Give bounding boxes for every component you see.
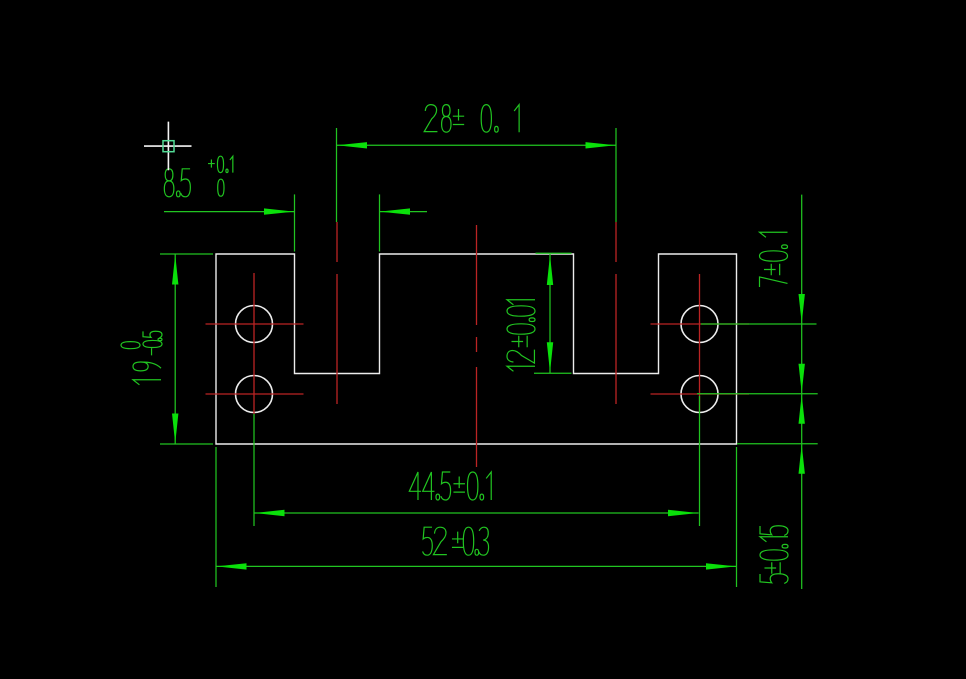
dim 44.5 arrow right xyxy=(668,510,698,516)
dim 52 arrow right xyxy=(706,563,736,569)
dim 19 text "19 0/-0.5" (rotated) xyxy=(121,331,162,385)
dim 12 text "12±0.01" (rotated) xyxy=(507,300,535,372)
dim 8.5 tolerance text "+0.1" xyxy=(208,156,233,172)
hole bottom-right xyxy=(681,376,718,413)
dim 52 extension line right xyxy=(736,447,738,587)
dim 28 text "28± 0. 1" xyxy=(424,105,519,133)
centerline part middle (dashed) xyxy=(476,225,478,467)
hole top-left xyxy=(236,306,273,343)
dim 52 text "52±0.3" xyxy=(423,527,489,555)
dim 8.5 extension line left xyxy=(294,194,296,251)
dim 7/5 shared dimension line xyxy=(801,195,803,589)
dim 8.5 line right xyxy=(380,211,427,213)
dim 19 arrow top xyxy=(172,255,178,285)
centerline right notch xyxy=(615,222,617,404)
dim 8.5 extension line right xyxy=(379,194,381,251)
dim 52 extension line left xyxy=(215,447,217,587)
dim 12 extension line top xyxy=(536,252,572,254)
dim 44.5 arrow left xyxy=(255,510,285,516)
dim 28 extension line left xyxy=(336,128,338,222)
dim 5 extension line at part bottom xyxy=(737,443,818,445)
centerline horizontal bottom-left hole xyxy=(206,393,304,395)
centerline left notch xyxy=(336,222,338,404)
dim 7 arrow up below hole line xyxy=(799,395,805,424)
dim 8.5 arrow left xyxy=(264,208,294,214)
dim 44.5 extension line right xyxy=(699,396,701,526)
dim 12 arrow bottom xyxy=(547,342,553,372)
dim 28 arrow left xyxy=(337,142,367,148)
dim 12 extension line bottom xyxy=(534,372,572,374)
dim 5 text "5±0.15" (rotated) xyxy=(760,526,788,584)
dim 5 arrow up below part bottom xyxy=(799,445,805,474)
dim 7 extension line at top hole center xyxy=(701,323,817,325)
dim 44.5 text "44.5±0.1" xyxy=(409,472,491,500)
dim 44.5 extension line left xyxy=(253,414,255,526)
dim 52 arrow left xyxy=(217,563,247,569)
dim 44.5 dimension line xyxy=(254,512,699,514)
dim 8.5 leader line left xyxy=(164,211,294,213)
centerline horizontal bottom-right hole xyxy=(651,393,750,395)
dim 7 arrow down at top hole xyxy=(799,294,805,323)
dim 52 dimension line xyxy=(216,565,736,567)
dim 7 text "7±0.1" (rotated) xyxy=(760,232,788,287)
hole top-right xyxy=(681,306,718,343)
hole bottom-left xyxy=(236,376,273,413)
dim 19 arrow bottom xyxy=(172,414,178,444)
cursor crosshair xyxy=(144,122,192,171)
dim 5 arrow down above hole line xyxy=(799,364,805,393)
dim 28 dimension line xyxy=(337,144,617,146)
dim 12 arrow top xyxy=(547,255,553,285)
part outline xyxy=(216,254,737,444)
dim 28 extension line right xyxy=(615,128,617,222)
dim 8.5 tolerance text "0" xyxy=(218,179,224,196)
centerline horizontal top-right hole xyxy=(651,323,750,325)
dim 5 extension line at bottom hole center xyxy=(697,393,818,395)
dim 19 extension line bottom xyxy=(160,443,213,445)
dim 28 arrow right xyxy=(586,142,616,148)
dim 8.5 text "8.5" xyxy=(164,169,190,197)
centerline horizontal top-left hole xyxy=(206,323,304,325)
dim 8.5 arrow right xyxy=(380,208,410,214)
centerline vertical left holes xyxy=(253,273,255,414)
dim 12 dimension line xyxy=(549,254,551,373)
dim 19 extension line top xyxy=(160,253,213,255)
dim 19 dimension line xyxy=(174,254,176,444)
centerline vertical right holes xyxy=(699,274,701,412)
